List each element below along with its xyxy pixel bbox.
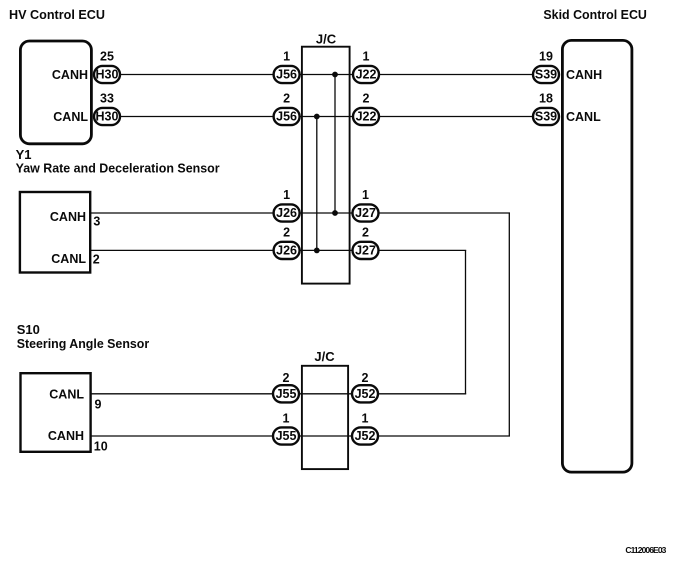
svg-text:J/C: J/C bbox=[314, 349, 335, 364]
svg-text:Steering Angle Sensor: Steering Angle Sensor bbox=[17, 336, 150, 351]
connector J55 pin 2 bbox=[273, 371, 299, 403]
junction connector J/C box 2 bbox=[302, 366, 348, 469]
steering sensor box S10 bbox=[21, 373, 91, 452]
svg-text:J56: J56 bbox=[276, 110, 297, 124]
svg-text:J26: J26 bbox=[276, 244, 297, 258]
wire J/C internal vertical CANH J56-1 to J26-1 bbox=[334, 75, 336, 214]
svg-text:J55: J55 bbox=[276, 387, 297, 401]
connector J52 pin 1 bbox=[352, 411, 378, 444]
wire J/C internal vertical CANL J56-2 to J26-2 bbox=[316, 117, 318, 251]
svg-text:CANL: CANL bbox=[51, 252, 86, 266]
svg-text:CANL: CANL bbox=[53, 110, 88, 124]
svg-text:S39: S39 bbox=[535, 68, 557, 82]
junction connector J/C box 1 bbox=[302, 47, 350, 284]
connector J52 pin 2 bbox=[352, 371, 378, 403]
yaw sensor box Y1 bbox=[20, 192, 90, 273]
connector J56 pin 2 bbox=[274, 92, 300, 126]
svg-text:J55: J55 bbox=[276, 429, 297, 443]
svg-text:CANL: CANL bbox=[49, 388, 84, 402]
junction dot row3 bbox=[332, 210, 338, 216]
svg-text:H30: H30 bbox=[96, 68, 119, 82]
svg-text:25: 25 bbox=[100, 50, 114, 64]
svg-text:2: 2 bbox=[283, 92, 290, 106]
svg-text:C112006E03: C112006E03 bbox=[625, 545, 666, 555]
wire right inner vertical bus J27-2 to J52-2 bbox=[465, 250, 467, 393]
connector J55 pin 1 bbox=[273, 411, 299, 444]
svg-text:J22: J22 bbox=[356, 110, 377, 124]
svg-text:HV Control ECU: HV Control ECU bbox=[9, 7, 105, 22]
svg-text:J52: J52 bbox=[355, 387, 376, 401]
svg-text:2: 2 bbox=[362, 371, 369, 385]
svg-text:CANH: CANH bbox=[50, 210, 86, 224]
svg-text:J56: J56 bbox=[276, 68, 297, 82]
junction dot row2 bbox=[314, 114, 320, 120]
svg-text:2: 2 bbox=[283, 371, 290, 385]
svg-text:19: 19 bbox=[539, 50, 553, 64]
svg-text:1: 1 bbox=[283, 50, 290, 64]
svg-text:1: 1 bbox=[283, 411, 290, 425]
wire row2 CANL: H30 to S39 bbox=[119, 116, 534, 118]
svg-text:Yaw Rate and Deceleration Sens: Yaw Rate and Deceleration Sensor bbox=[16, 161, 220, 176]
svg-text:CANL: CANL bbox=[566, 110, 601, 124]
svg-text:1: 1 bbox=[362, 188, 369, 202]
svg-text:2: 2 bbox=[363, 92, 370, 106]
Skid Control ECU box bbox=[562, 40, 632, 472]
wire row5 CANL: steering sensor to J52 and inner bus bbox=[90, 393, 466, 395]
connector J56 pin 1 bbox=[274, 50, 300, 84]
svg-text:9: 9 bbox=[95, 398, 102, 412]
svg-text:CANH: CANH bbox=[52, 68, 88, 82]
svg-text:3: 3 bbox=[93, 215, 100, 229]
svg-text:10: 10 bbox=[94, 440, 108, 454]
svg-text:J22: J22 bbox=[356, 68, 377, 82]
svg-text:S39: S39 bbox=[535, 110, 557, 124]
svg-text:2: 2 bbox=[362, 226, 369, 240]
svg-text:J26: J26 bbox=[276, 206, 297, 220]
svg-text:H30: H30 bbox=[96, 110, 119, 124]
svg-text:J/C: J/C bbox=[316, 32, 337, 47]
svg-text:2: 2 bbox=[283, 226, 290, 240]
svg-text:1: 1 bbox=[283, 188, 290, 202]
connector H30 pin 33 bbox=[94, 92, 120, 126]
junction dot row4 bbox=[314, 248, 320, 254]
svg-text:1: 1 bbox=[362, 411, 369, 425]
svg-text:J52: J52 bbox=[355, 429, 376, 443]
svg-text:Skid Control ECU: Skid Control ECU bbox=[543, 7, 647, 22]
wire row6 CANH: steering sensor to J52 and right bus bbox=[90, 435, 510, 437]
connector H30 pin 25 bbox=[94, 50, 120, 84]
connector S39 pin 19 bbox=[533, 50, 559, 84]
junction dot row1 bbox=[332, 72, 338, 78]
connector J27 pin 2 bbox=[353, 226, 379, 260]
svg-text:J27: J27 bbox=[355, 244, 376, 258]
connector J22 pin 1 bbox=[353, 50, 379, 84]
svg-text:CANH: CANH bbox=[48, 429, 84, 443]
svg-text:2: 2 bbox=[93, 253, 100, 267]
wire row3 CANH: yaw sensor to J27 and right bus bbox=[90, 212, 510, 214]
wire right outer vertical bus J27-1 to J52-1 bbox=[508, 213, 510, 436]
wire row1 CANH: H30 to S39 bbox=[119, 74, 534, 76]
svg-text:CANH: CANH bbox=[566, 68, 602, 82]
connector J26 pin 1 bbox=[274, 188, 300, 222]
wire row4 CANL: yaw sensor to J27 and inner bus bbox=[90, 249, 466, 251]
connector J22 pin 2 bbox=[353, 92, 379, 126]
connector S39 pin 18 bbox=[533, 92, 559, 126]
svg-text:33: 33 bbox=[100, 92, 114, 106]
svg-text:18: 18 bbox=[539, 92, 553, 106]
connector J26 pin 2 bbox=[274, 226, 300, 260]
svg-text:1: 1 bbox=[363, 50, 370, 64]
HV Control ECU box bbox=[20, 41, 91, 144]
svg-text:J27: J27 bbox=[355, 206, 376, 220]
connector J27 pin 1 bbox=[353, 188, 379, 222]
